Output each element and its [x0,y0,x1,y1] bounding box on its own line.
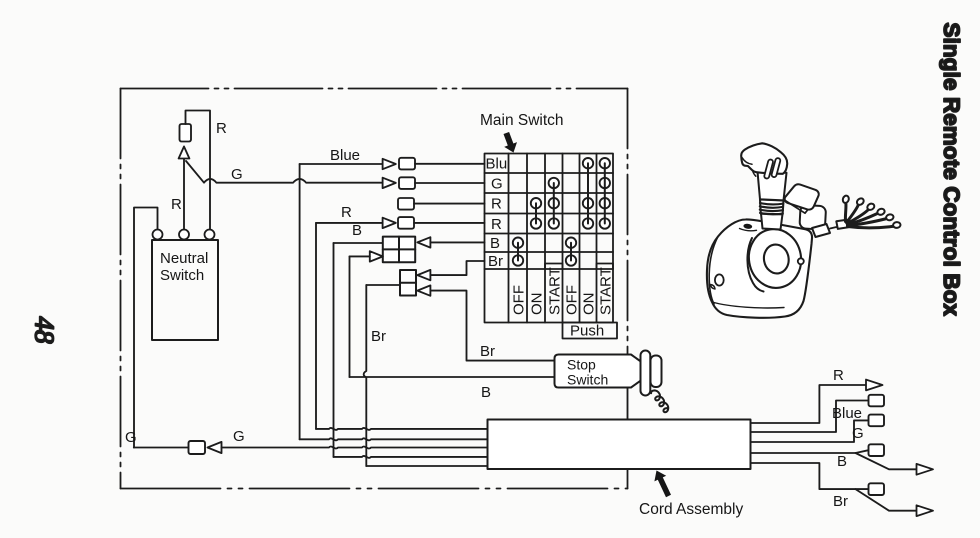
svg-text:Cord Assembly: Cord Assembly [639,501,743,518]
throttle wheel rim arc [747,238,763,292]
connector square B out [869,444,885,456]
svg-text:Br: Br [488,253,503,270]
screw left oval [715,274,724,285]
handle grip [741,143,787,174]
connector square Blue [399,158,415,170]
wire feed 2x2 bottom [350,255,370,257]
throttle wheel inner [762,243,791,276]
svg-text:G: G [233,428,245,445]
body bottom facet line [712,302,784,308]
svg-text:B: B [352,222,362,239]
push box [563,323,618,339]
connector square G [399,177,415,189]
grip face strips [764,158,781,179]
svg-text:START: START [598,267,615,315]
wire table B row [430,241,484,243]
svg-text:Single Remote Control Box: Single Remote Control Box [939,23,964,317]
wire from table Br row to stack2 top [430,261,484,275]
bundle wire Blue [300,438,488,440]
wire B to stop switch [350,376,554,378]
wire B vertical drop [333,243,335,457]
connector arrow (left) from table B [417,237,430,247]
svg-text:Push: Push [570,323,604,340]
svg-text:B: B [837,453,847,470]
wire vertical to stop switch B [349,256,351,377]
bundle wire B [334,456,488,458]
main switch table [485,154,614,323]
arrow to cord assembly (filled) [654,471,671,498]
svg-text:Br: Br [371,328,386,345]
svg-text:Blue: Blue [330,147,360,164]
wire Blue vertical drop [299,164,301,439]
fuse connector on R riser [180,124,192,142]
wire: neutral switch left riser (G) [134,208,158,448]
cable stub [836,220,848,229]
svg-text:G: G [231,166,243,183]
ignition plate thickness edge [785,201,807,214]
connector arrow G (right) [383,178,396,188]
open arrow Br out [917,505,934,516]
cord out wire G [751,420,869,442]
wire Blue horizontal [300,163,383,165]
connector arrow Blue (right) [383,159,396,169]
connector arrow (left) stack2 top [417,270,430,280]
svg-text:START: START [547,267,564,315]
svg-text:Blue: Blue [832,405,862,422]
svg-text:Main Switch: Main Switch [480,112,564,129]
wire R1 to table [414,203,485,205]
wire G to table [415,182,485,184]
cord out wire Br [751,463,869,489]
cable clamp [812,224,830,237]
neck lower [761,214,783,230]
cord assembly box [488,420,751,470]
svg-text:Stop: Stop [567,357,596,373]
connector square Blue out [869,395,885,407]
svg-text:Neutral: Neutral [160,250,208,267]
terminal circles of neutral switch [153,230,215,240]
ignition switch block [799,205,826,230]
throttle wheel outer [744,225,805,292]
svg-text:G: G [852,425,864,442]
G bottom wire left [134,447,189,449]
harness wires fan [845,203,894,228]
enclosure border (dash-dot box) [121,89,628,489]
svg-text:G: G [491,176,503,193]
svg-text:OFF: OFF [564,285,581,315]
ribbed boot [760,200,784,215]
stop switch [555,351,669,413]
cord out wire Blue [751,401,869,433]
cord out wire R [751,385,867,423]
wire: R loop top [186,111,211,230]
wire B branch to arrow [856,453,917,469]
screw right [798,258,804,264]
connector arrow (up) on R riser [179,147,190,159]
open arrow R out [866,380,883,391]
table column labels (rotated) [511,267,615,315]
svg-text:R: R [833,367,844,384]
ignition cover plate [785,184,819,209]
switch contacts (circles) [513,158,610,266]
connector square G out [869,415,885,427]
wire: G from junction with hops [186,161,383,183]
left face detail [711,285,716,290]
contact connection bars [518,163,605,260]
svg-text:Switch: Switch [567,372,608,388]
body [707,219,812,317]
svg-text:G: G [125,429,137,446]
wire B feed [334,242,383,244]
cable link [830,227,837,229]
connector square R2 [398,217,414,229]
svg-text:48: 48 [30,317,60,345]
svg-text:OFF: OFF [511,285,528,315]
wire Br vertical drop with jog [364,285,367,466]
wire: neutral switch middle riser (R) [183,159,185,230]
svg-text:B: B [481,384,491,401]
bundle wire Br [366,465,487,467]
grip left step [742,158,756,176]
svg-text:R: R [491,216,502,233]
neutral switch NS [152,240,218,340]
wire Br branch to arrow [856,489,917,511]
neck upper [758,172,787,201]
wire R2 vertical drop [315,223,317,429]
wire R2 horizontal [316,222,383,224]
svg-text:ON: ON [581,293,598,316]
wire stack2 bottom to stop switch Br [430,291,553,361]
svg-text:Br: Br [480,343,495,360]
table row labels [486,156,508,271]
wire stop switch to cord assembly [627,388,629,420]
bundle wire R [316,428,488,430]
wire Blue to table [415,163,485,165]
remote control box illustration [707,143,901,317]
connector arrow (right) into 2x2 bottom [370,251,383,261]
svg-text:R: R [216,120,227,137]
connector arrow (left) stack2 bottom [417,285,430,295]
wire R2 to table [414,222,485,224]
arrow to main switch (filled) [504,132,518,153]
svg-text:ON: ON [529,293,546,316]
connector block 2x2 [383,237,415,263]
svg-text:R: R [341,204,352,221]
svg-text:R: R [491,196,502,213]
svg-text:R: R [171,196,182,213]
svg-text:Br: Br [833,493,848,510]
svg-text:Switch: Switch [160,267,204,284]
connector square G bottom [189,441,206,454]
wire stack2 bottom left [366,284,400,286]
connector stack 2 [400,270,416,296]
svg-text:B: B [490,235,500,252]
open arrow B out [917,464,934,475]
connector square R1 [398,198,414,210]
body left facet line [709,237,718,305]
svg-text:Blu: Blu [486,156,508,173]
connector arrow G bottom (left) [208,442,222,453]
connector square Br out [869,483,885,495]
bolt on top edge [740,223,757,231]
cord out wire B [751,450,869,453]
harness wire terminals [842,195,901,228]
connector arrow R2 (right) [383,218,396,228]
bundle wire G [222,446,488,448]
